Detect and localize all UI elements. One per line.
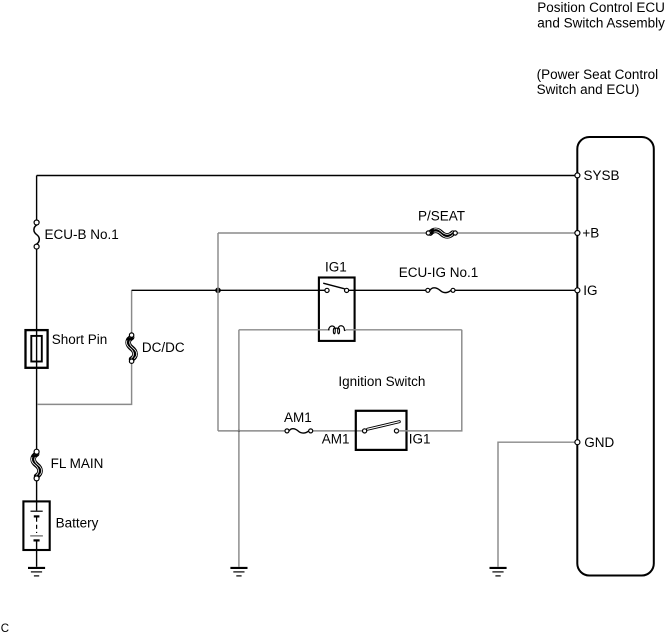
fusible link FL MAIN — [32, 449, 104, 481]
svg-text:Position Control ECU: Position Control ECU — [537, 0, 665, 15]
wire relay coil line — [239, 329, 462, 331]
svg-text:AM1: AM1 — [322, 431, 350, 446]
svg-text:+B: +B — [582, 226, 599, 241]
node crossing dark pixel — [238, 430, 240, 432]
pin IG — [575, 283, 598, 298]
svg-text:Switch and ECU): Switch and ECU) — [537, 82, 640, 97]
pin +B — [575, 226, 599, 241]
fuse ECU-IG No.1 — [399, 265, 479, 293]
svg-text:GND: GND — [584, 435, 614, 450]
pin SYSB — [575, 168, 620, 183]
wire IG1 return to coil — [399, 330, 462, 431]
wire +B feed — [218, 233, 575, 431]
ground relay coil — [230, 568, 247, 576]
battery — [23, 501, 98, 550]
wire GND — [498, 442, 575, 567]
svg-text:IG1: IG1 — [409, 431, 431, 446]
wire fuse to IG pin — [455, 289, 575, 291]
ground ECU GND — [490, 568, 507, 576]
ignition switch lever — [368, 422, 400, 430]
wire left battery vertical — [36, 176, 38, 567]
title block — [537, 0, 666, 97]
svg-text:Short Pin: Short Pin — [52, 332, 108, 347]
svg-text:FL MAIN: FL MAIN — [51, 456, 104, 471]
svg-text:AM1: AM1 — [284, 410, 312, 425]
relay IG1 — [319, 260, 355, 341]
ignition switch box — [338, 374, 425, 450]
relay IG1 contact circles — [325, 288, 349, 292]
fusible link DC/DC — [127, 333, 185, 364]
fuse AM1 — [284, 410, 313, 433]
relay IG1 coil — [329, 326, 346, 334]
wire relay to ECU-IG fuse — [349, 289, 426, 291]
wire AM1 feed — [218, 430, 363, 432]
wire IG line to relay — [132, 289, 325, 291]
svg-text:IG: IG — [583, 283, 597, 298]
svg-text:DC/DC: DC/DC — [142, 340, 185, 355]
svg-text:SYSB: SYSB — [584, 168, 620, 183]
svg-text:(Power Seat Control: (Power Seat Control — [537, 67, 659, 82]
fusible link P/SEAT — [418, 209, 465, 238]
ignition switch contact IG1 — [394, 429, 430, 447]
wire DC/DC branch — [37, 290, 131, 404]
ECU connector body — [577, 137, 654, 576]
svg-text:ECU-IG No.1: ECU-IG No.1 — [399, 265, 479, 280]
ignition switch contact AM1 — [322, 429, 367, 447]
pin GND — [575, 435, 615, 450]
fuse ECU-B No.1 — [34, 220, 119, 249]
relay IG1 switch blade — [323, 283, 344, 289]
svg-text:Ignition Switch: Ignition Switch — [338, 374, 425, 389]
wire coil ground drop — [238, 330, 240, 567]
svg-text:and Switch Assembly: and Switch Assembly — [537, 15, 665, 30]
svg-text:C: C — [1, 623, 9, 635]
short pin SP1 — [26, 330, 108, 368]
ground battery — [28, 568, 45, 576]
wire top SYSB feed — [37, 175, 575, 177]
svg-text:ECU-B No.1: ECU-B No.1 — [45, 227, 119, 242]
node junction at +B feed — [215, 288, 221, 294]
page mark C — [1, 623, 9, 635]
svg-text:P/SEAT: P/SEAT — [418, 209, 465, 224]
svg-text:IG1: IG1 — [325, 260, 347, 275]
svg-text:Battery: Battery — [56, 516, 99, 531]
